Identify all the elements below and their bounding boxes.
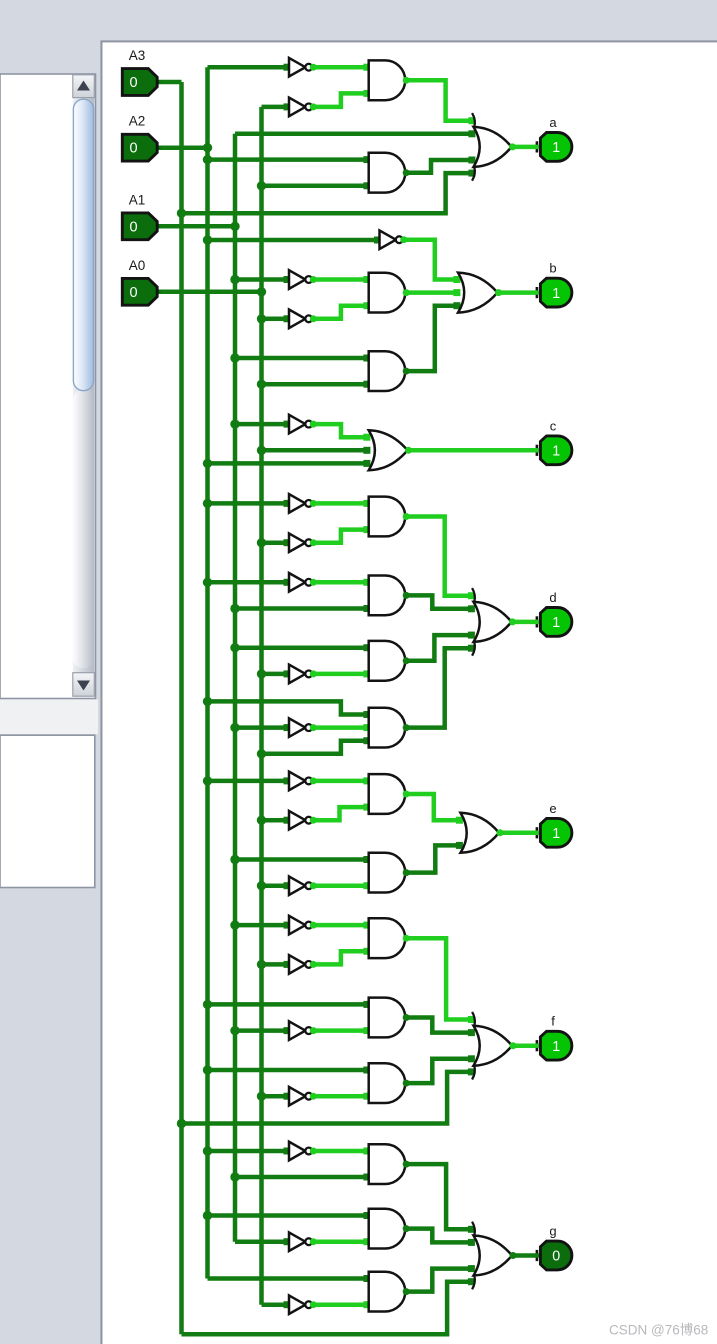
pin pad AND input bright y503.4 — [363, 500, 370, 507]
wire AND2 out to OR-a in3 — [405, 160, 471, 173]
pin pad OR-g in4 — [468, 1265, 475, 1272]
wire X4 branch to OR-c in2 — [262, 448, 367, 453]
port dot U4 output — [310, 315, 317, 322]
wire X2 branch to OR-c in3 — [208, 461, 367, 466]
wire X4 branch to NOT4 — [262, 317, 286, 322]
pin pad NOT input 1 — [284, 103, 291, 110]
pin pad NOT input 16 — [284, 1093, 291, 1100]
output pin d — [534, 608, 572, 637]
scrollbar track lower sheen — [73, 390, 94, 668]
port dot OR-b out — [495, 289, 502, 296]
wire X1 bottom run to OR-g — [182, 1282, 472, 1335]
wire AND11 out to OR-e in2 — [405, 845, 459, 872]
AND gate A3g — [369, 273, 405, 313]
node X2-A2 — [203, 143, 212, 152]
port dot U6 output — [310, 500, 317, 507]
port dot AND output y727.6 — [403, 724, 410, 731]
node X2-NOTb1 — [203, 235, 212, 244]
pin pad AND input bright y951.3 — [363, 948, 370, 955]
svg-text:a: a — [549, 115, 557, 130]
port dot U16 output — [310, 1093, 317, 1100]
pin pad AND input bright y885.7 — [363, 882, 370, 889]
wire NOT3 out to AND3 in1 — [311, 277, 367, 282]
node X4-AND4 — [257, 380, 266, 389]
wire AND17 out to OR-g in4 — [405, 1269, 471, 1292]
pin pad NOT input 8 — [284, 670, 291, 677]
pin pad AND input bright y67.2 — [363, 64, 370, 71]
wire X3 branch to NOT5 — [235, 422, 285, 427]
pin pad OR-d in5 — [468, 645, 475, 652]
node X3-AND11 — [230, 855, 239, 864]
pin pad OR-e in2 — [456, 842, 463, 849]
svg-text:c: c — [550, 418, 557, 433]
pin pad AND input bright y1241.7 — [363, 1238, 370, 1245]
pin pad NOT input 10 — [284, 777, 291, 784]
port dot AND output y595.4 — [403, 592, 410, 599]
AND gate A1g — [369, 60, 405, 100]
wire bus X4 (A0) vertical — [259, 107, 264, 1305]
inverter U14 — [289, 955, 312, 974]
wire X2 branch to NOT6 — [208, 501, 286, 506]
wire X3 top to OR-a in2 — [235, 132, 472, 137]
output pin b — [534, 278, 572, 307]
pin pad AND input dark y1215.5 — [363, 1212, 370, 1219]
wire NOT18 out to AND16 in2 — [311, 1239, 367, 1244]
wire NOT15 out to AND13 in2 — [311, 1028, 367, 1033]
node X2-AND2 — [203, 155, 212, 164]
pin pad AND input bright y529.6 — [363, 526, 370, 533]
port dot OR-e out — [497, 829, 504, 836]
wire X2 bottom to AND17 in1 — [208, 1276, 367, 1281]
OR gate OR-d — [472, 588, 511, 656]
port dot U18 output — [310, 1238, 317, 1245]
port dot AND output y1083.1 — [403, 1080, 410, 1087]
pin pad AND input bright y279.5 — [363, 276, 370, 283]
node X3-AND7 — [230, 604, 239, 613]
wire X1 branch to OR-a in4 — [182, 173, 472, 213]
svg-text:1: 1 — [552, 444, 560, 460]
OR gate OR-a — [472, 113, 511, 181]
node X3-NOT13 — [230, 920, 239, 929]
node X3-NOT10 — [230, 723, 239, 732]
attribute panel — [0, 735, 95, 887]
AND gate A8g — [369, 641, 405, 681]
pin pad AND input dark y1177 — [363, 1174, 370, 1181]
inverter U17 — [289, 1142, 312, 1161]
scrollbar track — [73, 98, 95, 673]
pin pad AND input bright y807.1 — [363, 804, 370, 811]
wire X2 branch to AND9 in1 — [208, 701, 367, 714]
output pin f — [534, 1031, 572, 1060]
wire X2 branch to AND14 in1 — [208, 1068, 367, 1073]
inverter Ub1 — [380, 230, 403, 249]
pin pad OR-a in1 — [468, 117, 475, 124]
inverter U12 — [289, 876, 312, 895]
node X2-NOT8 — [203, 578, 212, 587]
pin pad NOT input 19 — [284, 1301, 291, 1308]
wire X2 branch to NOT-b1 — [208, 238, 376, 243]
wire A3 pin to bus X1 — [158, 80, 182, 85]
node X3-A1 — [230, 222, 239, 231]
OR gate OR-c — [369, 430, 408, 470]
pin pad AND input bright y780.9 — [363, 777, 370, 784]
AND gate A11g — [369, 853, 405, 893]
pin pad NOT-b1 input — [374, 237, 381, 244]
input pin A1 — [122, 213, 161, 240]
pin pad NOT input 9 — [284, 724, 291, 731]
pin pad AND input bright y1030.6 — [363, 1027, 370, 1034]
svg-text:A2: A2 — [129, 114, 146, 129]
svg-text:f: f — [551, 1014, 555, 1029]
OR gate OR-f — [472, 1012, 512, 1080]
port dot Ue1 output — [310, 777, 317, 784]
wire X3 branch to AND8 in1 — [235, 645, 367, 650]
pin pad AND input dark y1278.5 — [363, 1275, 370, 1282]
wire X3 branch to AND15 in2 — [235, 1175, 367, 1180]
AND gate A12g — [369, 918, 405, 958]
svg-text:1: 1 — [552, 826, 560, 842]
input pin A3 — [122, 69, 161, 96]
wire NOT11 out to AND10 in2 — [311, 807, 367, 820]
wire X2 branch to AND16 in1 — [208, 1213, 367, 1218]
wire X3 branch to AND4 in1 — [235, 356, 367, 361]
pin pad NOT input 17 — [284, 1148, 291, 1155]
pin pad AND input dark y185.8 — [363, 182, 370, 189]
port dot U9 output — [310, 670, 317, 677]
wire NOT10 out to AND9 in2 — [311, 725, 367, 730]
svg-text:1: 1 — [552, 615, 560, 631]
wire X4 branch to NOT11 — [262, 818, 286, 823]
wire X4 branch to AND9 in3 — [262, 741, 367, 754]
port dot U15 output — [310, 1027, 317, 1034]
port dot AND output y516.5 — [403, 513, 410, 520]
pin pad AND input bright y305.7 — [363, 302, 370, 309]
wire OR-e out to pin e — [499, 831, 535, 836]
output pin e — [534, 818, 572, 847]
port dot AND output y794.0 — [403, 791, 410, 798]
inverter U3 — [289, 270, 312, 289]
AND gate A10g — [369, 774, 406, 814]
wire OR-g out to pin g — [512, 1253, 535, 1258]
wire OR-f out to pin f — [512, 1043, 535, 1048]
pin pad AND input bright y1096.2 — [363, 1093, 370, 1100]
port dot U11 output — [310, 817, 317, 824]
wire NOT16 out to AND14 in2 — [311, 1094, 367, 1099]
AND gate A7g — [369, 576, 405, 616]
wire NOT12 out to AND11 in2 — [311, 883, 367, 888]
wire X1 branch to OR-f in5 — [182, 1072, 472, 1124]
wire bus X3 (A1) vertical — [233, 134, 238, 1242]
port dot AND output y1228.6 — [403, 1225, 410, 1232]
pin pad AND input bright y1304.7 — [363, 1301, 370, 1308]
wire NOT4 out to AND3 in2 — [311, 306, 367, 319]
port dot U14 output — [310, 961, 317, 968]
svg-text:0: 0 — [130, 219, 138, 235]
node X2-NOT17 — [203, 1146, 212, 1155]
wire AND6 out to OR-d in1 — [405, 517, 471, 596]
wire AND14 out to OR-f in4 — [405, 1059, 471, 1083]
port dot AND output y1164.1 — [403, 1161, 410, 1168]
port dot AND output y292.6 — [403, 289, 410, 296]
wire OR-d out to pin d — [512, 620, 536, 625]
node X1-ORf — [177, 1119, 186, 1128]
inverter U8 — [289, 573, 312, 592]
node X2-NOT6 — [203, 499, 212, 508]
node X4-A0 — [257, 287, 266, 296]
wire X2 branch to NOT17 — [208, 1149, 286, 1154]
svg-text:1: 1 — [552, 286, 560, 302]
pin pad OR-f in4 — [468, 1055, 475, 1062]
OR gate OR-e — [461, 813, 500, 853]
wire AND12 out to OR-f in1 — [405, 938, 471, 1019]
wire X2 branch to NOT8 — [208, 580, 286, 585]
svg-text:A1: A1 — [129, 192, 146, 207]
svg-text:e: e — [549, 801, 556, 816]
node X3-NOT15 — [230, 1026, 239, 1035]
AND gate A9g — [369, 708, 405, 748]
AND gate A6g — [369, 497, 405, 537]
wire X4 branch to AND4 in2 — [262, 382, 367, 387]
svg-text:A3: A3 — [129, 48, 146, 63]
inverter U4 — [289, 310, 312, 329]
node X4-AND2 — [257, 181, 266, 190]
wire AND8 out to OR-d in4 — [405, 635, 471, 661]
node X3-NOT3 — [230, 275, 239, 284]
pin pad OR-c in1 — [363, 434, 370, 441]
pin pad OR-a in2 — [468, 130, 475, 137]
pin pad AND input dark y1070 — [363, 1067, 370, 1074]
port dot U7 output — [310, 539, 317, 546]
svg-text:g: g — [549, 1224, 556, 1239]
wire X4 branch to NOT12 — [262, 883, 286, 888]
node X4-ORc — [257, 446, 266, 455]
pin pad OR-e in1 — [456, 817, 463, 824]
node X3-AND4 — [230, 353, 239, 362]
port dot OR-a out — [509, 143, 516, 150]
wire AND15 out to OR-g in1 — [405, 1164, 471, 1229]
wire NOT7 out to AND6 in2 — [311, 530, 367, 543]
AND gate A16g — [369, 1209, 406, 1249]
wire X3 branch to NOT13 — [235, 923, 285, 928]
AND gate A2g — [369, 153, 405, 193]
port dot AND output y1291.6 — [403, 1288, 410, 1295]
port dot OR-f out — [510, 1042, 517, 1049]
pin pad OR-b in1 — [453, 276, 460, 283]
wire OR-b out to pin b — [498, 290, 536, 295]
svg-text:0: 0 — [130, 285, 138, 301]
pin pad AND input dark y608.5 — [363, 605, 370, 612]
pin pad OR-b in2 — [453, 289, 460, 296]
pin pad NOT input 15 — [284, 1027, 291, 1034]
wire X4 branch to NOT14 — [262, 962, 286, 967]
inverter U13 — [289, 916, 312, 935]
pin pad OR-d in4 — [468, 632, 475, 639]
inverter U15 — [289, 1021, 312, 1040]
wire AND7 out to OR-d in2 — [405, 595, 471, 608]
wire NOT5 out to OR-c in1 — [311, 424, 367, 437]
pin pad AND input bright y727.6 — [363, 724, 370, 731]
inverter U10 — [289, 718, 312, 737]
wire NOT-b1 out to OR-b in1 — [402, 240, 457, 280]
node X4-AND9 — [257, 749, 266, 758]
wire A1 pin to bus X3 — [158, 224, 235, 229]
pin pad NOT input 14 — [284, 961, 291, 968]
output pin g — [534, 1241, 572, 1270]
node X3-AND8 — [230, 643, 239, 652]
port dot AND output y872.6 — [403, 869, 410, 876]
pin pad OR-g in1 — [468, 1226, 475, 1233]
port dot OR-d out — [509, 618, 516, 625]
inverter U1 — [289, 58, 312, 77]
port dot U1 output — [310, 64, 317, 71]
node X3-AND15 — [230, 1172, 239, 1181]
pin pad AND input bright y1151 — [363, 1148, 370, 1155]
port dot AND output y371.1 — [403, 368, 410, 375]
wire NOT2 out to AND1 in2 — [311, 93, 367, 107]
pin pad AND input bright y673.9 — [363, 670, 370, 677]
pin pad AND input dark y384.2 — [363, 381, 370, 388]
wire AND9 out to OR-d in5 — [405, 648, 471, 727]
wire X4 top to NOT2 — [262, 105, 286, 110]
port dot U12 output — [310, 882, 317, 889]
pin pad AND input bright y925.1 — [363, 922, 370, 929]
node X2-AND9 — [203, 697, 212, 706]
AND gate A17g — [369, 1272, 406, 1312]
inverter U16 — [289, 1087, 312, 1106]
wire X2 top to NOT1 — [208, 65, 286, 70]
wire NOT19 out to AND17 in2 — [311, 1302, 367, 1307]
node X4-NOT12 — [257, 881, 266, 890]
input pin A0 — [122, 278, 161, 305]
port dot AND output y172.7 — [403, 169, 410, 176]
port dot U10 output — [310, 724, 317, 731]
wire X3 bottom to NOT18 — [235, 1239, 285, 1244]
port dot U5 output — [310, 421, 317, 428]
pin pad AND input dark y714.5 — [363, 711, 370, 718]
AND gate A4g — [369, 351, 405, 391]
inverter U11 — [289, 811, 312, 830]
inverter U5 — [289, 415, 312, 434]
port dot U17 output — [310, 1148, 317, 1155]
port dot AND output y660.8 — [403, 657, 410, 664]
node X4-NOT11 — [257, 816, 266, 825]
node X3-NOT5 — [230, 419, 239, 428]
port dot AND output y80.3 — [403, 77, 410, 84]
wire X4 branch to NOT16 — [262, 1094, 286, 1099]
inverter U6 — [289, 494, 312, 513]
port dot U19 output — [310, 1301, 317, 1308]
pin pad OR-f in1 — [468, 1016, 475, 1023]
pin pad OR-a in3 — [468, 157, 475, 164]
wire A0 pin to bus X4 — [158, 290, 262, 295]
wire NOT1 out to AND1 in1 — [311, 65, 367, 70]
svg-text:0: 0 — [130, 75, 138, 91]
pin pad NOT input 2 — [284, 276, 291, 283]
scrollbar down button — [73, 673, 95, 697]
scrollbar up button — [73, 75, 95, 98]
output pin a — [534, 133, 572, 162]
node X4-NOT16 — [257, 1092, 266, 1101]
pin pad NOT input 6 — [284, 539, 291, 546]
wire X2 branch to AND13 in1 — [208, 1002, 367, 1007]
pin pad AND input bright y582.3 — [363, 579, 370, 586]
OR gate OR-g — [472, 1222, 512, 1290]
svg-text:1: 1 — [552, 140, 560, 156]
svg-text:A0: A0 — [129, 258, 146, 273]
inverter U19 — [289, 1295, 312, 1314]
svg-text:d: d — [549, 590, 556, 605]
pin pad NOT input 12 — [284, 882, 291, 889]
pin pad NOT input 7 — [284, 579, 291, 586]
pin pad NOT input 4 — [284, 421, 291, 428]
inverter U9 — [289, 665, 312, 684]
pin pad OR-a in4 — [468, 170, 475, 177]
port dot AND output y938.2 — [403, 935, 410, 942]
wire OR-c out to pin c — [408, 448, 536, 453]
node X2-AND14 — [203, 1065, 212, 1074]
OR gate OR-b — [458, 273, 498, 313]
wire X4 branch to NOT9 — [262, 672, 286, 677]
node X2-AND13 — [203, 1000, 212, 1009]
wire NOT8 out to AND7 in1 — [311, 580, 367, 585]
node X2-NOTe1 — [203, 776, 212, 785]
svg-text:b: b — [549, 261, 556, 276]
svg-text:0: 0 — [552, 1249, 560, 1265]
wire NOT6 out to AND6 in1 — [311, 501, 367, 506]
wire X3 branch to AND7 in2 — [235, 606, 367, 611]
AND gate A13g — [369, 998, 406, 1038]
svg-text:1: 1 — [552, 1039, 560, 1055]
pin pad OR-f in5 — [468, 1068, 475, 1075]
port dot U2 output — [310, 103, 317, 110]
pin pad AND input dark y358 — [363, 355, 370, 362]
wire NOT9 out to AND8 in2 — [311, 672, 367, 677]
wire AND10 out to OR-e in1 — [405, 794, 459, 820]
wire X3 branch to NOT10 — [235, 725, 285, 730]
wire AND1 out to OR-a in1 — [405, 80, 471, 120]
wire OR-a out to pin a — [512, 145, 536, 150]
wire bus X1 (A3) vertical — [179, 82, 184, 1334]
pin pad NOT input 18 — [284, 1238, 291, 1245]
pin pad NOT input 3 — [284, 315, 291, 322]
wire AND16 out to OR-g in2 — [405, 1229, 471, 1243]
pin pad AND input dark y859.5 — [363, 856, 370, 863]
wire A2 pin to bus X2 — [158, 145, 208, 150]
wire X3 branch to NOT3 — [235, 277, 285, 282]
pin pad OR-c in3 — [363, 460, 370, 467]
toolbar strip — [0, 699, 98, 734]
inverter Ue1 — [289, 772, 312, 791]
port dot U13 output — [310, 922, 317, 929]
pin pad OR-g in5 — [468, 1278, 475, 1285]
pin pad NOT input 13 — [284, 922, 291, 929]
port dot U8 output — [310, 579, 317, 586]
pin pad NOT input 0 — [284, 64, 291, 71]
wire NOT13 out to AND12 in1 — [311, 923, 367, 928]
pin pad OR-d in1 — [468, 592, 475, 599]
wire AND3 out to OR-b in2 — [405, 290, 456, 295]
node X4-NOT4 — [257, 314, 266, 323]
svg-text:CSDN @76博68: CSDN @76博68 — [609, 1322, 708, 1338]
pin pad NOT input 11 — [284, 817, 291, 824]
wire X2 branch to AND2 in1 — [208, 157, 367, 162]
port dot U3 output — [310, 276, 317, 283]
pin pad AND input dark y647.7 — [363, 644, 370, 651]
pin pad OR-d in2 — [468, 605, 475, 612]
wire AND4 out to OR-b in3 — [405, 306, 456, 371]
node X2-AND16 — [203, 1211, 212, 1220]
node X4-NOT7 — [257, 538, 266, 547]
